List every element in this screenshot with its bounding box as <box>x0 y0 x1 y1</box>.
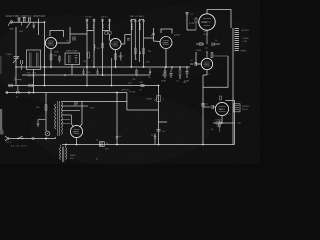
svg-text:-14 V.: -14 V. <box>203 31 209 33</box>
coupling capacitor C18 <box>203 105 215 109</box>
svg-text:TUNE: TUNE <box>6 54 12 56</box>
filter capacitor C21 <box>154 134 156 145</box>
padder blocks <box>105 32 111 35</box>
bus AVC y67 <box>16 66 190 68</box>
cathode resistor R1 <box>50 49 52 67</box>
resistor R12 <box>199 43 203 45</box>
svg-text:470M: 470M <box>189 23 194 25</box>
wire antenna to grid <box>11 21 45 23</box>
svg-text:250 V.: 250 V. <box>203 34 209 36</box>
svg-text:OSC. COIL: OSC. COIL <box>27 73 38 75</box>
svg-text:AVC: AVC <box>151 34 156 37</box>
wire grid lead <box>44 22 46 86</box>
wire V5 cathode down <box>203 70 207 145</box>
svg-text:FIELD: FIELD <box>70 155 76 157</box>
tap stub <box>21 22 23 25</box>
svg-text:5V.: 5V. <box>74 105 77 107</box>
resistor R2 <box>88 52 90 58</box>
bus y75 <box>22 74 150 76</box>
antenna coil L3 <box>28 18 31 23</box>
tube V4 6K6GT output <box>199 14 215 30</box>
capacitor C17 <box>157 130 161 132</box>
svg-text:20 20: 20 20 <box>151 135 157 137</box>
wire T3 cathode down <box>165 49 167 67</box>
svg-text:OSC.: OSC. <box>19 31 24 33</box>
svg-text:12SF5: 12SF5 <box>203 64 210 66</box>
capacitor C22 <box>37 120 46 128</box>
resistor R17 <box>45 105 47 111</box>
capacitor C3 <box>73 37 75 41</box>
resistor R8 <box>9 84 13 87</box>
capacitor C23 on x203 <box>201 103 204 106</box>
resistor R16 <box>217 120 221 132</box>
svg-text:12SA7: 12SA7 <box>47 42 54 45</box>
IFT1 secondary legs <box>103 19 110 31</box>
B bus y92.5 <box>6 92 128 94</box>
resistor R5 <box>143 48 145 54</box>
pilot lamp <box>45 131 50 136</box>
svg-text:50L6: 50L6 <box>201 20 207 24</box>
svg-text:VOICE: VOICE <box>243 38 250 40</box>
branch wire <box>159 121 168 123</box>
output transformer T-OP <box>232 28 234 52</box>
capacitor C1 <box>33 22 35 28</box>
fuse F1 <box>32 137 35 140</box>
resistor R14 on bus drop <box>158 86 160 145</box>
capacitor C14 <box>96 69 98 76</box>
trimmer C4 <box>86 20 95 21</box>
svg-text:500M: 500M <box>161 81 166 83</box>
wire T1 plate to IFT1 <box>57 27 87 43</box>
capacitor C10 <box>170 70 173 79</box>
svg-text:456 KC.: 456 KC. <box>101 16 109 18</box>
svg-text:WAVE TRAP: WAVE TRAP <box>66 50 78 53</box>
wire V4 plate to output transformer <box>207 10 231 29</box>
capacitor C26 <box>6 91 7 94</box>
svg-text:ANT.: ANT. <box>10 28 15 31</box>
wire IFT1 legs down <box>87 31 94 86</box>
svg-text:12SQ7: 12SQ7 <box>162 43 169 45</box>
target anode symbol <box>234 104 241 112</box>
capacitor C24 <box>120 52 122 61</box>
IFT2 secondary coil <box>139 19 143 67</box>
resistor R15 <box>213 122 235 124</box>
svg-text:50M: 50M <box>55 52 59 54</box>
grid loop V6 <box>226 100 235 102</box>
tube V7 rectifier 35Z5 <box>70 125 82 137</box>
svg-text:600 KC: 600 KC <box>28 76 35 78</box>
secondary winding <box>61 102 62 134</box>
resistor R13 plate load <box>206 52 208 58</box>
filter capacitor C20 <box>116 137 118 139</box>
trimmer C8 <box>138 21 145 22</box>
IFT1 secondary coil <box>103 24 110 29</box>
capacitor C6 <box>94 44 96 51</box>
svg-text:1ST.I.F.: 1ST.I.F. <box>85 16 92 18</box>
svg-text:12SQ7: 12SQ7 <box>174 35 181 37</box>
capacitor C11 <box>186 67 189 78</box>
coupling capacitor C12 <box>190 62 202 66</box>
capacitor C15 <box>186 13 189 15</box>
heater wires <box>61 120 70 124</box>
capacitor C13 <box>82 69 84 76</box>
svg-text:2M: 2M <box>83 61 86 63</box>
resistor R11 <box>195 18 197 30</box>
resistor R18 <box>59 55 61 63</box>
tube V2 12SK7 IF amp <box>110 38 121 49</box>
wire <box>38 19 40 36</box>
tube V1 12SA7 converter <box>45 37 56 48</box>
switch SW1 <box>18 136 23 138</box>
variable arrow <box>27 22 31 28</box>
svg-text:B-: B- <box>96 159 98 161</box>
svg-text:SPKR.: SPKR. <box>241 51 247 53</box>
grid cap loop T1 <box>50 31 64 38</box>
scan artifact left edge <box>0 56 2 74</box>
filter capacitor C19 <box>99 142 104 147</box>
grid resistor V6 <box>220 96 222 100</box>
svg-text:3M: 3M <box>148 51 151 53</box>
tuning capacitor VC1 <box>15 27 17 86</box>
junction dots <box>15 21 188 93</box>
svg-text:1 MEG: 1 MEG <box>146 99 153 101</box>
IFT1 primary coil <box>87 24 94 29</box>
svg-text:2M: 2M <box>133 79 136 81</box>
wire rectifier cathode <box>76 138 78 145</box>
wire IFT1 sec to T2 grid <box>110 34 112 41</box>
IFT1 primary legs <box>87 19 94 31</box>
grid loop T3 <box>161 29 172 34</box>
power transformer T-PWR core <box>58 101 60 136</box>
wire from V5 down to V6 <box>203 56 228 87</box>
wire step from bus4 to volume <box>127 93 159 111</box>
wire pilot branch <box>45 93 47 132</box>
HV winding to rectifier plates <box>61 100 127 102</box>
wire osc box <box>33 70 35 93</box>
svg-text:117 V.: 117 V. <box>6 142 12 144</box>
resistor R20 <box>102 43 104 48</box>
capacitor C2 <box>21 60 23 70</box>
svg-text:PHONO: PHONO <box>242 106 250 108</box>
B+ bus y85.5 <box>8 85 159 87</box>
tube V3 12SQ7 det <box>160 37 172 49</box>
svg-text:1-W: 1-W <box>237 123 241 125</box>
primary winding <box>55 104 56 129</box>
wire bus3 to bus4 <box>17 86 19 93</box>
wire right L <box>234 101 236 145</box>
AC line <box>8 137 56 139</box>
bottom bus <box>62 144 235 146</box>
antenna coil L1 <box>17 18 20 23</box>
wire vertical x117 <box>116 93 118 145</box>
svg-text:A.C. - D.C. 60 CY.: A.C. - D.C. 60 CY. <box>11 145 28 148</box>
wire IFT2 sec to T3 <box>144 28 161 42</box>
wire cathode T2 to bus <box>111 58 113 86</box>
svg-text:2 MEG: 2 MEG <box>215 120 222 122</box>
trimmer C7 <box>130 21 136 22</box>
junction dots bottom <box>65 122 223 145</box>
resistor R4 <box>134 48 136 54</box>
wire <box>71 65 73 76</box>
svg-text:12SK7: 12SK7 <box>111 44 118 46</box>
capacitor C16 <box>212 43 220 47</box>
lower windings / field coil <box>62 147 64 163</box>
svg-text:TO 6U5: TO 6U5 <box>129 92 137 94</box>
bracket mark <box>15 79 21 81</box>
svg-text:OUTPUT: OUTPUT <box>241 30 250 32</box>
capacitor C27 <box>17 91 20 94</box>
oscillator coil box L2 <box>27 50 41 70</box>
svg-text:PLUG: PLUG <box>242 109 248 111</box>
volume control R6 <box>162 70 166 80</box>
resistor R10 <box>141 85 145 87</box>
svg-text:10M: 10M <box>139 82 143 84</box>
capacitor C28 <box>28 91 30 94</box>
capacitor C25 below bus <box>149 69 151 76</box>
wire grid of T5 area <box>187 12 196 30</box>
junction dot <box>45 138 47 140</box>
svg-text:2M: 2M <box>183 82 186 84</box>
tube V5 2nd AF <box>201 58 212 69</box>
svg-text:12A8: 12A8 <box>218 108 224 111</box>
svg-text:2ND. I.F. 456KC: 2ND. I.F. 456KC <box>130 16 145 18</box>
wire T2 plate to IFT2 <box>121 35 131 45</box>
antenna <box>8 21 13 27</box>
tube V6 <box>215 102 228 115</box>
AC plug <box>5 136 8 141</box>
resistor R7 <box>179 70 181 76</box>
cathode wire V6 <box>221 116 223 123</box>
antenna coil L2 <box>23 17 26 22</box>
svg-text:47M: 47M <box>146 62 150 64</box>
wire B+ vertical right <box>232 52 234 145</box>
rect plate cap <box>75 102 77 105</box>
IFT2 primary coil <box>131 19 135 67</box>
resistor R9 <box>29 84 33 87</box>
cathode resistor R3 <box>115 50 117 67</box>
resistor R19 below bus <box>136 69 138 77</box>
junction dots right <box>116 85 204 146</box>
trimmer C5 <box>101 20 110 21</box>
wire into V5 <box>196 52 202 64</box>
svg-text:250M: 250M <box>196 50 201 52</box>
svg-text:6.3V.: 6.3V. <box>90 108 95 110</box>
wire screen resistor row <box>196 30 207 44</box>
capacitor C9 <box>139 52 141 54</box>
wave trap box L3 <box>65 53 80 65</box>
svg-text:35Z5: 35Z5 <box>73 132 79 134</box>
